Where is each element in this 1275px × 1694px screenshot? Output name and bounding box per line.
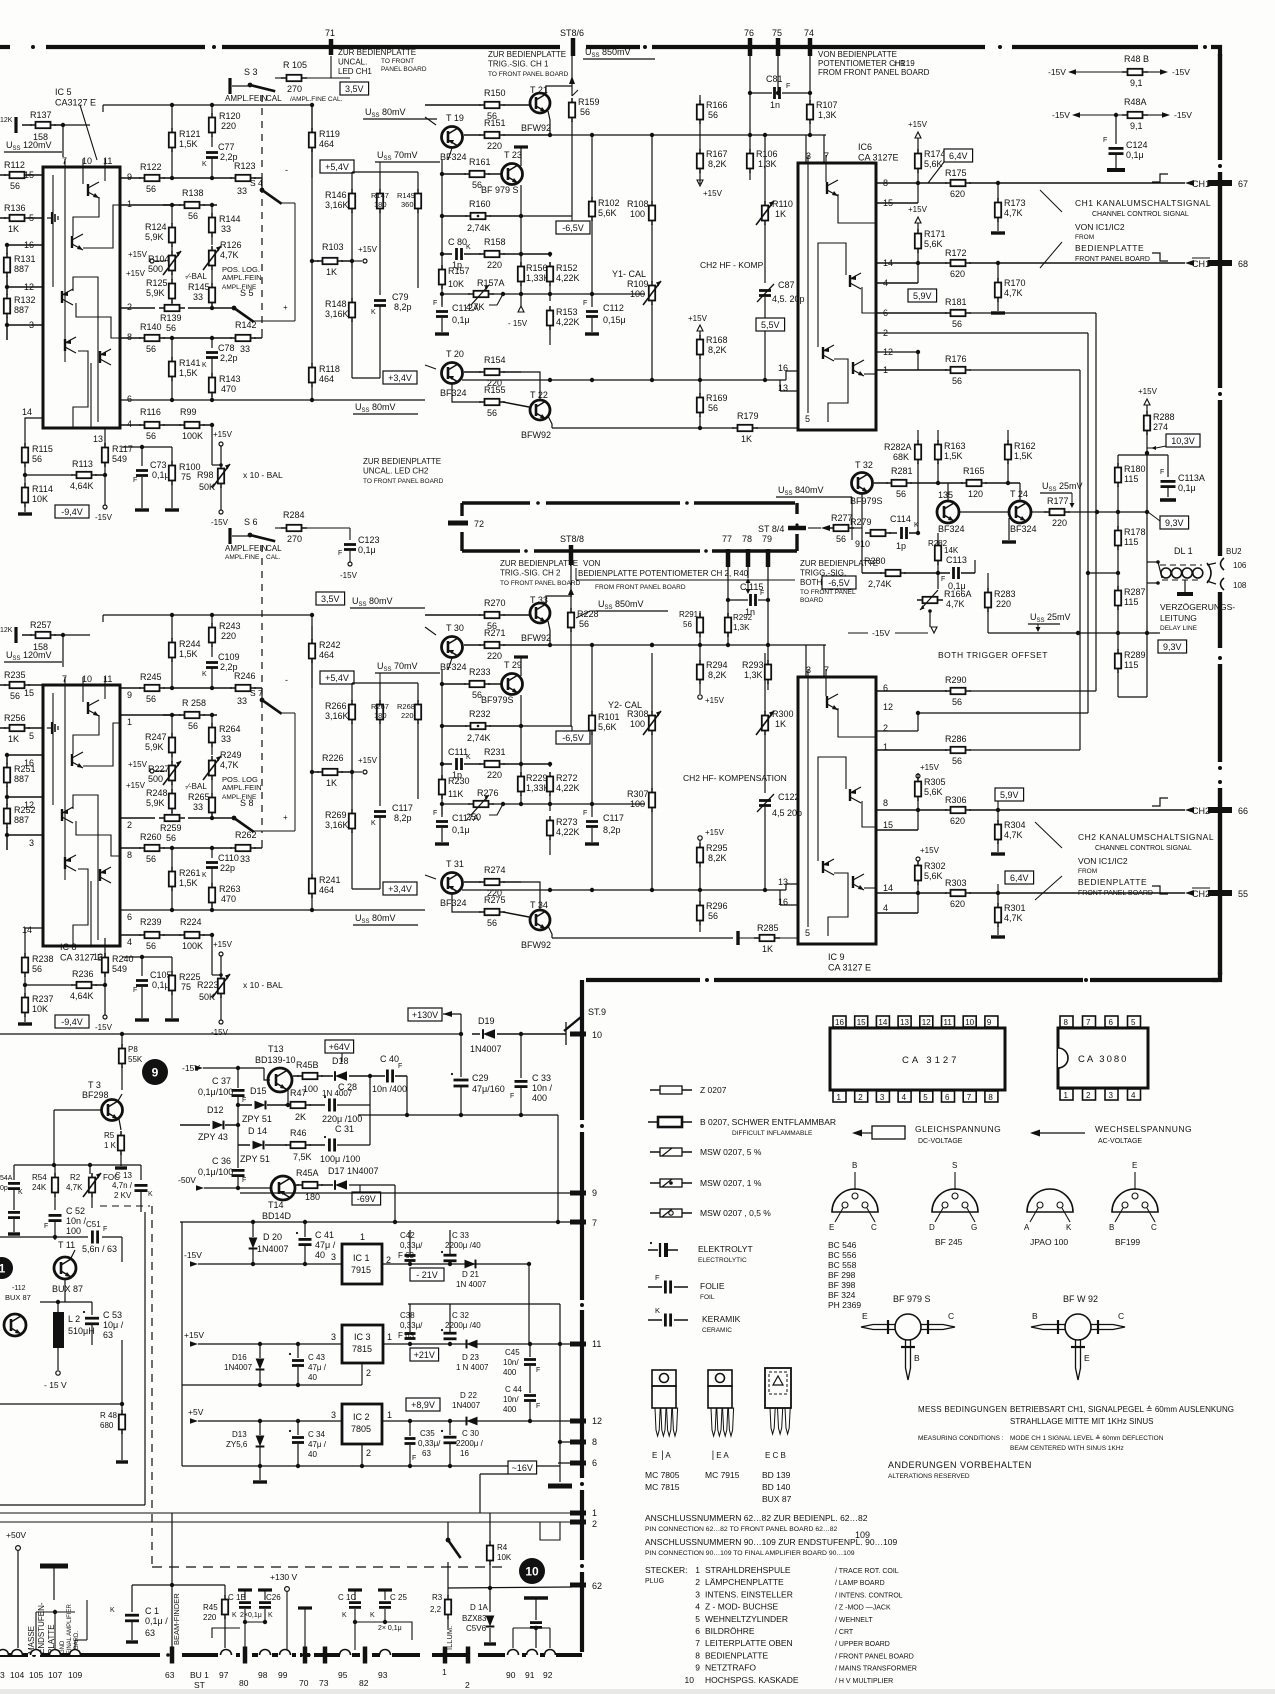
- wire 1222 row: [180, 1221, 582, 1223]
- svg-text:33: 33: [193, 292, 203, 302]
- supply bar T23: [520, 148, 522, 166]
- svg-text:MC 7815: MC 7815: [645, 1482, 680, 1492]
- capacitor C79: [374, 299, 386, 302]
- svg-text:33: 33: [221, 224, 231, 234]
- svg-text:5,9K: 5,9K: [145, 232, 164, 242]
- resistor R165: [967, 480, 982, 486]
- svg-text:R160: R160: [469, 199, 491, 209]
- svg-text:R113: R113: [72, 459, 93, 469]
- resistor R274: [464, 881, 481, 883]
- svg-text:7: 7: [695, 1638, 700, 1648]
- wire S4 to bus: [294, 713, 296, 728]
- svg-text:S: S: [952, 1161, 957, 1170]
- wire T3 base: [54, 1109, 101, 1111]
- svg-text:+130V: +130V: [412, 1010, 438, 1020]
- terminal +15V R295: [698, 836, 702, 840]
- connector tick 62: [570, 1583, 586, 1588]
- svg-text:14K: 14K: [944, 546, 959, 555]
- svg-text:R154: R154: [484, 355, 506, 365]
- svg-text:ST: ST: [194, 1680, 205, 1689]
- svg-text:R150: R150: [484, 88, 506, 98]
- wire 294 row: [442, 803, 470, 805]
- svg-text:620: 620: [950, 816, 965, 826]
- svg-text:R152: R152: [556, 263, 578, 273]
- resistor R267: [377, 705, 383, 720]
- svg-text:120: 120: [968, 489, 983, 499]
- svg-text:DIFFICULT INFLAMMABLE: DIFFICULT INFLAMMABLE: [732, 1130, 813, 1137]
- wire 294 row: [442, 293, 470, 295]
- resistor R251: [6, 755, 8, 764]
- svg-text:6: 6: [695, 1626, 700, 1636]
- svg-text:CA 3127 E: CA 3127 E: [60, 953, 103, 963]
- svg-text:D: D: [929, 1223, 935, 1232]
- svg-text:ZPY 43: ZPY 43: [198, 1132, 228, 1142]
- svg-text:G: G: [971, 1223, 977, 1232]
- wire long 890 row CH2: [462, 889, 786, 891]
- svg-text:10μ /: 10μ /: [103, 1320, 124, 1330]
- svg-text:R235: R235: [4, 670, 26, 680]
- svg-text:24K: 24K: [32, 1183, 47, 1192]
- svg-text:1K: 1K: [326, 267, 337, 277]
- svg-text:PIN CONNECTION 62…82 TO FRONT: PIN CONNECTION 62…82 TO FRONT PANEL BOAR…: [645, 1526, 837, 1533]
- svg-text:F: F: [133, 477, 137, 484]
- resistor R304: [997, 810, 999, 821]
- legend GLEICHSPANNUNG: [852, 1130, 862, 1137]
- svg-text:/ WEHNELT: / WEHNELT: [835, 1617, 873, 1624]
- svg-text:C 13: C 13: [115, 1171, 132, 1180]
- capacitor C51: [0, 1236, 88, 1238]
- svg-text:/ FRONT PANEL BOARD: / FRONT PANEL BOARD: [835, 1653, 914, 1660]
- svg-text:MSW 0207, 1 %: MSW 0207, 1 %: [700, 1178, 762, 1188]
- svg-text:100μ /100: 100μ /100: [320, 1154, 360, 1164]
- svg-text:115: 115: [1124, 474, 1138, 484]
- wire pin16: [7, 754, 43, 756]
- resistor R 105: [275, 77, 283, 79]
- svg-text:R173: R173: [1004, 198, 1026, 208]
- svg-text:7915: 7915: [351, 1265, 371, 1275]
- svg-text:ANDERUNGEN VORBEHALTEN: ANDERUNGEN VORBEHALTEN: [888, 1460, 1032, 1470]
- svg-text:BEDIENPLATTE POTENTIOMETER CH: BEDIENPLATTE POTENTIOMETER CH 2, R40: [578, 569, 749, 578]
- svg-text:1K: 1K: [326, 778, 337, 788]
- svg-text:R146: R146: [325, 190, 347, 200]
- svg-text:F: F: [1103, 137, 1107, 144]
- svg-text:+21V: +21V: [414, 1350, 435, 1360]
- svg-text:0,1μ: 0,1μ: [1126, 150, 1144, 160]
- svg-text:3: 3: [331, 1410, 336, 1420]
- capacitor C28: [328, 1099, 331, 1112]
- svg-text:63: 63: [145, 1628, 155, 1638]
- svg-text:4,7K: 4,7K: [1004, 830, 1023, 840]
- svg-text:1: 1: [387, 1332, 392, 1342]
- svg-text:66: 66: [1238, 806, 1248, 816]
- resistor R112: [0, 174, 6, 176]
- svg-text:R19: R19: [900, 59, 915, 68]
- svg-text:BF199: BF199: [1115, 1237, 1140, 1247]
- svg-text:HOCHSPGS. KASKADE: HOCHSPGS. KASKADE: [705, 1675, 799, 1685]
- svg-text:4,7K: 4,7K: [946, 599, 965, 609]
- svg-text:ZUR BEDIENPLATTE: ZUR BEDIENPLATTE: [500, 559, 578, 568]
- svg-text:22p: 22p: [220, 863, 235, 873]
- svg-text:C 30: C 30: [462, 1429, 479, 1438]
- svg-text:887: 887: [14, 264, 29, 274]
- diode D15 ZPY51: [238, 1104, 252, 1106]
- wire C38 top rail: [408, 1303, 560, 1305]
- wire corner rows: [540, 1522, 560, 1540]
- svg-text:10K: 10K: [32, 494, 48, 504]
- resistor R156: [520, 254, 522, 257]
- svg-text:+15V: +15V: [184, 1330, 204, 1340]
- svg-text:0,1μ: 0,1μ: [358, 545, 376, 555]
- svg-text:56: 56: [10, 691, 20, 701]
- resistor R141: [171, 338, 173, 358]
- svg-text:R136: R136: [4, 203, 26, 213]
- svg-text:82: 82: [359, 1678, 369, 1688]
- svg-text:11: 11: [103, 156, 112, 166]
- svg-text:11K: 11K: [448, 789, 463, 799]
- svg-text:CA 3127E: CA 3127E: [858, 153, 899, 163]
- svg-text:R175: R175: [945, 168, 967, 178]
- svg-text:P8: P8: [128, 1045, 138, 1054]
- capacitor C33b: [520, 1034, 522, 1078]
- transistor T 34: [530, 910, 550, 930]
- svg-text:C 36: C 36: [212, 1156, 231, 1166]
- svg-text:D12: D12: [207, 1105, 224, 1115]
- connector tick 2: [570, 1520, 586, 1525]
- wire left section frame: [144, 1212, 146, 1505]
- svg-text:C113: C113: [946, 555, 967, 565]
- disc 10: [519, 1558, 545, 1584]
- svg-text:D 22: D 22: [460, 1391, 477, 1400]
- svg-text:4,22K: 4,22K: [556, 783, 580, 793]
- svg-text:R144: R144: [219, 214, 241, 224]
- svg-text:ILLUM.: ILLUM.: [445, 1626, 454, 1650]
- svg-text:NETZTRAFO: NETZTRAFO: [705, 1663, 756, 1673]
- resistor R5: [119, 1119, 121, 1130]
- resistor R48A: [1128, 112, 1143, 118]
- svg-text:R163: R163: [944, 441, 966, 451]
- wire T34 emitter row: [552, 937, 733, 939]
- svg-text:16: 16: [460, 1449, 469, 1458]
- svg-text:F: F: [433, 300, 437, 307]
- resistor R262: [236, 845, 251, 851]
- voltage box +8,9V: [406, 1398, 440, 1411]
- svg-text:K: K: [371, 820, 376, 827]
- svg-text:5,9K: 5,9K: [146, 288, 165, 298]
- svg-text:MSW 0207, 5 %: MSW 0207, 5 %: [700, 1147, 762, 1157]
- capacitor C87: [759, 289, 771, 292]
- DIP package CA 3080: [1058, 1028, 1148, 1088]
- connector tick 74: [808, 38, 813, 56]
- svg-text:10n/: 10n/: [503, 1358, 519, 1367]
- svg-text:USS 120mV: USS 120mV: [6, 650, 52, 662]
- svg-text:C 43: C 43: [308, 1353, 325, 1362]
- svg-text:54A: 54A: [0, 1175, 13, 1182]
- svg-text:CH2 KANALUMSCHALTSIGNAL: CH2 KANALUMSCHALTSIGNAL: [1078, 832, 1214, 842]
- resistor R273: [549, 804, 551, 811]
- wire 16V drop: [480, 1473, 508, 1475]
- svg-text:400: 400: [503, 1368, 517, 1377]
- resistor R179: [552, 427, 734, 429]
- label +15V: [352, 771, 362, 773]
- capacitor C34: [297, 1421, 299, 1435]
- svg-text:- 15V: - 15V: [508, 319, 528, 328]
- svg-text:R45: R45: [203, 1603, 218, 1612]
- resistor R292: [725, 618, 731, 633]
- svg-text:BZX83: BZX83: [462, 1614, 487, 1623]
- resistor R242: [311, 626, 313, 640]
- svg-text:R171: R171: [924, 229, 946, 239]
- svg-text:6: 6: [1109, 1018, 1114, 1027]
- svg-text:-15V: -15V: [95, 1023, 113, 1032]
- ground DL1 tap: [1184, 580, 1186, 592]
- svg-text:620: 620: [950, 269, 965, 279]
- wire +3,4V rail: [352, 377, 380, 379]
- svg-text:CH1: CH1: [1192, 259, 1210, 269]
- resistor R138: [163, 204, 181, 206]
- svg-text:VERZÖGERUNGS-: VERZÖGERUNGS-: [1160, 602, 1235, 612]
- svg-text:-6,5V: -6,5V: [562, 733, 584, 743]
- svg-text:7805: 7805: [351, 1424, 371, 1434]
- capacitor C105: [141, 957, 143, 976]
- svg-text:-50V: -50V: [178, 1175, 196, 1185]
- svg-text:0,1μ: 0,1μ: [152, 980, 170, 990]
- svg-text:+15V: +15V: [128, 760, 148, 769]
- svg-text:+15V: +15V: [705, 696, 725, 705]
- svg-text:73: 73: [319, 1678, 329, 1688]
- svg-text:56: 56: [166, 323, 176, 333]
- svg-text:T 22: T 22: [530, 390, 548, 400]
- diode D16: [256, 1359, 265, 1370]
- svg-text:220: 220: [487, 770, 502, 780]
- svg-text:180: 180: [374, 200, 387, 209]
- svg-text:C 37: C 37: [212, 1076, 231, 1086]
- svg-text:56: 56: [472, 180, 482, 190]
- wire T21 emitter: [548, 621, 550, 644]
- svg-text:T 19: T 19: [446, 113, 464, 123]
- resistor R305: [915, 782, 921, 797]
- svg-text:BOARD: BOARD: [800, 597, 823, 604]
- svg-text:C114: C114: [890, 514, 911, 524]
- resistor R244: [171, 615, 173, 639]
- svg-text:MC 7915: MC 7915: [705, 1470, 740, 1480]
- svg-text:470: 470: [221, 384, 236, 394]
- resistor R285: [736, 931, 739, 945]
- svg-text:12K: 12K: [0, 117, 13, 124]
- svg-text:R125: R125: [146, 278, 168, 288]
- svg-text:15: 15: [24, 688, 34, 698]
- svg-text:75: 75: [772, 28, 782, 38]
- svg-text:R 258: R 258: [182, 698, 206, 708]
- svg-text:ZUR BEDIENPLATTE: ZUR BEDIENPLATTE: [338, 48, 416, 57]
- svg-text:220: 220: [401, 711, 414, 720]
- svg-text:C 1B: C 1B: [228, 1593, 246, 1602]
- svg-text:2,74K: 2,74K: [467, 733, 491, 743]
- resistor R247: [171, 715, 173, 734]
- svg-text:C29: C29: [472, 1073, 489, 1083]
- svg-text:+: +: [283, 813, 288, 822]
- svg-text:R166: R166: [706, 100, 728, 110]
- svg-text:~16V: ~16V: [512, 1463, 533, 1473]
- svg-text:56: 56: [952, 697, 962, 707]
- shield caps C1B C26: [238, 1588, 252, 1591]
- wire pin8 out row: [876, 182, 947, 184]
- svg-text:BEDIENPLATTE: BEDIENPLATTE: [705, 1650, 768, 1660]
- svg-text:2K: 2K: [295, 1112, 306, 1122]
- resistor R146: [349, 194, 355, 209]
- svg-text:C112: C112: [603, 303, 624, 313]
- svg-text:14: 14: [22, 407, 32, 417]
- svg-text:0,15μ: 0,15μ: [603, 315, 626, 325]
- svg-text:+3,4V: +3,4V: [388, 884, 412, 894]
- svg-text:R263: R263: [219, 884, 241, 894]
- svg-text:VON BEDIENPLATTE: VON BEDIENPLATTE: [818, 50, 897, 59]
- resistor R3: [447, 1580, 449, 1596]
- svg-text:C42: C42: [400, 1231, 415, 1240]
- connector tick 8: [560, 1441, 582, 1443]
- transistor T 23: [502, 164, 523, 185]
- resistor R176: [876, 369, 947, 371]
- svg-text:K: K: [268, 1612, 273, 1619]
- resistor R48b680: [119, 1415, 125, 1430]
- connector tick 12: [570, 1419, 586, 1424]
- resistor R159: [571, 86, 573, 96]
- resistor R100: [171, 447, 173, 462]
- svg-text:R294: R294: [706, 660, 728, 670]
- connector tick 11: [570, 1342, 586, 1347]
- svg-text:F: F: [103, 1226, 107, 1233]
- svg-text:R277: R277: [831, 513, 853, 523]
- svg-text:14: 14: [883, 883, 893, 893]
- wire 573 stub: [1088, 572, 1118, 574]
- svg-text:S 4: S 4: [250, 178, 263, 188]
- svg-text:464: 464: [319, 139, 334, 149]
- svg-text:/ MAINS TRANSFORMER: / MAINS TRANSFORMER: [835, 1666, 917, 1673]
- svg-text:T13: T13: [268, 1044, 284, 1054]
- resistor R116: [145, 422, 160, 428]
- resistor R151: [464, 134, 481, 136]
- wire pin8 row: [120, 847, 141, 849]
- svg-text:R273: R273: [556, 817, 578, 827]
- svg-text:3,16K: 3,16K: [325, 711, 349, 721]
- svg-text:0,33μ/: 0,33μ/: [418, 1439, 441, 1448]
- resistor R137: [22, 124, 32, 126]
- resistor R136: [0, 217, 6, 219]
- wire pin2 row: [120, 817, 155, 819]
- svg-text:R259: R259: [160, 823, 182, 833]
- svg-text:10: 10: [965, 1018, 974, 1027]
- svg-text:8: 8: [1064, 1018, 1069, 1027]
- svg-text:180: 180: [374, 711, 387, 720]
- svg-text:IC 9: IC 9: [828, 952, 845, 962]
- svg-text:7: 7: [967, 1093, 972, 1102]
- svg-text:BF324: BF324: [1010, 524, 1037, 534]
- svg-text:BD139-10: BD139-10: [255, 1055, 296, 1065]
- svg-text:33: 33: [237, 696, 247, 706]
- svg-text:R237: R237: [32, 994, 54, 1004]
- svg-text:33: 33: [221, 734, 231, 744]
- svg-text:BF 398: BF 398: [828, 1280, 856, 1290]
- svg-text:R307: R307: [627, 789, 649, 799]
- svg-text:STRAHLDREHSPULE: STRAHLDREHSPULE: [705, 1565, 791, 1575]
- resistor R48B: [1128, 69, 1143, 75]
- svg-text:BF 324: BF 324: [828, 1290, 856, 1300]
- svg-text:R223: R223: [197, 980, 219, 990]
- potentiometer R223: [219, 952, 223, 956]
- svg-text:10n /400: 10n /400: [372, 1084, 407, 1094]
- capacitor C112: [591, 294, 593, 307]
- svg-text:6: 6: [127, 912, 132, 922]
- svg-text:TO FRONT PANEL: TO FRONT PANEL: [800, 589, 856, 596]
- svg-text:BUX 87: BUX 87: [5, 1293, 31, 1302]
- svg-text:R287: R287: [1124, 587, 1146, 597]
- resistor R163: [937, 430, 939, 441]
- svg-text:8,2K: 8,2K: [708, 345, 727, 355]
- svg-text:67: 67: [1238, 179, 1248, 189]
- svg-text:13: 13: [93, 434, 103, 444]
- svg-text:ST8/6: ST8/6: [560, 28, 584, 38]
- svg-text:2 KV: 2 KV: [114, 1191, 132, 1200]
- wire pin9 row: [120, 177, 141, 179]
- svg-text:8,2p: 8,2p: [603, 825, 621, 835]
- svg-text:100: 100: [66, 1226, 81, 1236]
- label -15V right R48A: [1162, 112, 1170, 118]
- svg-text:B: B: [1109, 1223, 1114, 1232]
- resistor R8: [119, 1049, 125, 1064]
- svg-text:FINAL AMPLIFIER: FINAL AMPLIFIER: [67, 1604, 73, 1654]
- wire pin4 stub CH2: [877, 912, 918, 914]
- svg-text:R231: R231: [484, 747, 506, 757]
- svg-text:GND: GND: [60, 1640, 66, 1654]
- svg-text:R288: R288: [1153, 412, 1175, 422]
- svg-text:1: 1: [837, 1093, 842, 1102]
- svg-text:0,33μ/: 0,33μ/: [400, 1321, 423, 1330]
- svg-text:220: 220: [487, 260, 502, 270]
- svg-text:R238: R238: [32, 954, 54, 964]
- voltage box -21V: [410, 1268, 444, 1281]
- svg-text:15: 15: [857, 1018, 866, 1027]
- svg-text:100K: 100K: [182, 431, 203, 441]
- svg-text:10K: 10K: [32, 1004, 48, 1014]
- svg-text:8,2p: 8,2p: [394, 813, 412, 823]
- svg-text:R249: R249: [220, 750, 242, 760]
- wire 1585 row: [132, 1584, 225, 1586]
- diode D17: [335, 1180, 347, 1190]
- op-amp IC 6 CA3127E box: [798, 163, 876, 430]
- svg-text:8: 8: [127, 850, 132, 860]
- resistor R124: [171, 205, 173, 224]
- resistor R46: [291, 1142, 306, 1148]
- svg-text:R239: R239: [140, 917, 162, 927]
- resistor R302: [915, 866, 921, 881]
- svg-text:549: 549: [112, 964, 127, 974]
- svg-text:5,6K: 5,6K: [924, 787, 943, 797]
- svg-text:C35: C35: [420, 1429, 435, 1438]
- svg-text:F: F: [941, 576, 945, 583]
- svg-text:50K: 50K: [199, 992, 215, 1002]
- svg-text:R261: R261: [179, 868, 201, 878]
- capacitor C117: [591, 804, 593, 817]
- svg-text:1N 4007: 1N 4007: [456, 1280, 487, 1289]
- svg-text:1 K: 1 K: [104, 1141, 117, 1150]
- wire T21 collector: [546, 596, 572, 605]
- svg-text:T 21: T 21: [530, 85, 548, 95]
- transistor T 30: [442, 637, 463, 658]
- capacitor C31: [328, 1139, 331, 1152]
- capacitor C109: [206, 661, 218, 664]
- svg-text:T 24: T 24: [1010, 489, 1028, 499]
- svg-text:K: K: [232, 1612, 237, 1619]
- svg-text:-9,4V: -9,4V: [61, 1017, 83, 1027]
